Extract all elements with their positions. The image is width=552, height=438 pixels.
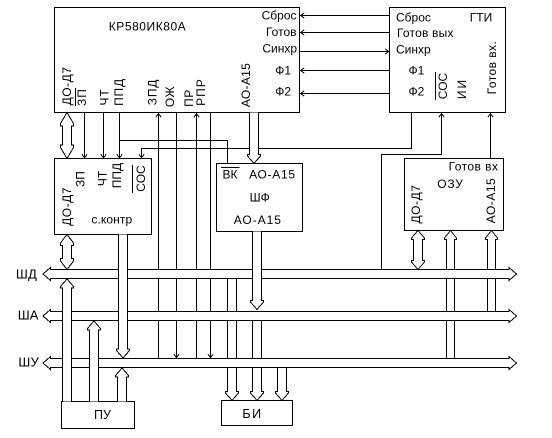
svg-text:БИ: БИ: [242, 407, 262, 421]
svg-text:ЗП: ЗП: [75, 88, 89, 106]
svg-text:ЧТ: ЧТ: [96, 170, 110, 186]
label ShD: [16, 267, 37, 282]
wire Sbros GTI to CPU: [300, 13, 390, 18]
svg-text:Ф2: Ф2: [275, 85, 291, 99]
wire ZPD ShU bus to CPU: [156, 113, 161, 359]
control bus ShU: [43, 357, 517, 370]
pin label F1 (GTI): [409, 64, 425, 78]
wire D0-D7 OZU to ShD bus (double arrow): [412, 231, 425, 270]
wire PU to ShD bus (up arrow): [61, 279, 74, 402]
svg-text:ША: ША: [18, 308, 39, 323]
system controller block U3: [55, 159, 152, 235]
pin label Gotov vh (OZU): [449, 160, 499, 174]
wire F2 GTI to CPU: [300, 91, 390, 96]
label PU name: [94, 408, 111, 422]
wire Gotov GTI to CPU: [300, 30, 390, 35]
pin label II (GTI): [455, 78, 469, 99]
svg-text:ЗП: ЗП: [73, 171, 87, 187]
label s.kontr: [91, 213, 132, 227]
svg-text:ЗПД: ЗПД: [146, 79, 160, 105]
label OZU name: [437, 177, 463, 191]
pin label PPD (CPU): [112, 78, 126, 106]
pin label F2 (GTI): [409, 85, 425, 99]
wire ShU bus to OZU (up arrow): [445, 231, 457, 359]
svg-text:РПР: РПР: [194, 78, 208, 106]
wire F1 GTI to CPU: [300, 68, 390, 73]
svg-text:Ф2: Ф2: [409, 85, 425, 99]
wire ChT CPU to controller: [101, 113, 106, 159]
wire A0-A15 ShF to ShA bus (down arrow): [251, 232, 264, 310]
clock generator block U2 GTI: [390, 8, 506, 113]
svg-text:ДО-Д7: ДО-Д7: [409, 184, 423, 223]
svg-text:с.контр: с.контр: [91, 213, 132, 227]
pin label SOS with overline (ctrl): [133, 165, 148, 193]
pin label ChT (ctrl): [96, 170, 110, 186]
pin label PPD (ctrl): [110, 163, 124, 188]
wire controller to ShU bus (down arrow): [117, 235, 130, 359]
svg-text:Готов вх.: Готов вх.: [485, 41, 499, 95]
pin label A0-A15 top (ShF): [249, 168, 296, 182]
svg-text:КР580ИК80А: КР580ИК80А: [109, 20, 186, 34]
pin label Gotov vyh (GTI): [397, 26, 454, 40]
label BI name: [242, 407, 262, 421]
svg-text:АО-А15: АО-А15: [249, 168, 296, 182]
wire SOS from GTI to controller: [139, 113, 412, 159]
label ShA: [18, 308, 39, 323]
wire Sinhr CPU to GTI: [300, 49, 390, 54]
svg-text:ИИ: ИИ: [455, 78, 469, 99]
svg-text:ВК: ВК: [223, 168, 238, 182]
wire RPR CPU to ShU bus: [208, 113, 213, 359]
pin label A0-A15 (CPU): [239, 63, 253, 107]
svg-text:ДО-Д7: ДО-Д7: [60, 67, 74, 106]
bus driver block U4 ShF: [217, 164, 303, 232]
wire ShA bus to OZU (up arrow): [486, 231, 498, 312]
pin label RPR (CPU): [194, 78, 208, 106]
svg-text:ШФ: ШФ: [250, 191, 270, 205]
pin label D0-D7 (OZU): [409, 184, 423, 223]
wire D0-D7 controller to ShD bus (double arrow): [61, 235, 74, 270]
pin label A0-A15 (OZU): [484, 178, 498, 223]
wire D0-D7 CPU to controller (double arrow): [61, 113, 74, 159]
pin label ZP (ctrl): [73, 171, 87, 187]
svg-text:ГТИ: ГТИ: [470, 11, 492, 25]
pin label ZP with overline (CPU): [75, 88, 89, 106]
wire A0-A15 CPU to ShF (down arrow): [248, 113, 261, 164]
svg-text:Готов: Готов: [266, 25, 297, 39]
svg-text:Готов вх: Готов вх: [449, 160, 499, 174]
label CPU name KP580IK80A: [109, 20, 186, 34]
label ShU: [18, 355, 39, 370]
pin label VK with overline (ShF): [221, 168, 240, 182]
svg-text:ШУ: ШУ: [18, 355, 39, 370]
wire OZh CPU to ShU bus: [174, 113, 179, 359]
wire PPD branch to VK pin of ShF: [120, 141, 228, 164]
wire ShD bus to BI (down arrow): [226, 279, 239, 401]
pin label ChT (CPU): [97, 89, 111, 106]
data bus ShD: [43, 268, 517, 281]
wire ShU bus to BI (down arrow): [276, 368, 289, 401]
svg-text:ПУ: ПУ: [94, 408, 111, 422]
control panel block U6 PU: [62, 402, 135, 429]
wire ZP CPU to controller: [82, 113, 87, 159]
wire PU to ShU bus (up arrow): [116, 368, 129, 402]
pin label Sbros (GTI): [396, 11, 431, 25]
svg-text:Готов вых: Готов вых: [397, 26, 454, 40]
svg-text:ДО-Д7: ДО-Д7: [60, 187, 74, 226]
pin label OZh (CPU): [163, 86, 177, 107]
pin label Sbros (CPU right): [262, 9, 297, 23]
wire Gotov vh OZU to GTI: [488, 113, 493, 159]
wire ShA bus to BI (down arrow): [251, 321, 264, 401]
svg-text:ППД: ППД: [112, 78, 126, 106]
pin label D0-D7 (ctrl): [60, 187, 74, 226]
svg-text:АО-А15: АО-А15: [484, 178, 498, 223]
pin label Gotov vh. (GTI): [485, 41, 499, 95]
indicator block U7 BI: [222, 401, 293, 426]
svg-text:ППД: ППД: [110, 163, 124, 188]
wire PPD CPU to controller: [117, 113, 122, 159]
svg-text:Синхр: Синхр: [262, 42, 297, 56]
svg-text:ЧТ: ЧТ: [97, 89, 111, 106]
pin label D0-D7 (CPU): [60, 67, 74, 106]
wire PU to ShA bus (up arrow): [88, 321, 101, 402]
pin label Gotov (CPU right): [266, 25, 297, 39]
pin label Sinhr (CPU right): [262, 42, 297, 56]
svg-text:СОС: СОС: [436, 72, 450, 99]
pin label SOS with overline (GTI): [436, 72, 451, 100]
svg-text:Сброс: Сброс: [262, 9, 297, 23]
label ShF name: [250, 191, 270, 205]
pin label PR (CPU): [182, 89, 196, 107]
svg-text:АО-А15: АО-А15: [234, 213, 282, 227]
memory block U5 OZU: [405, 159, 504, 231]
label GTI name: [470, 11, 492, 25]
svg-text:СОС: СОС: [134, 165, 148, 192]
wire II from ShD bus to GTI: [382, 113, 445, 270]
pin label Sinhr (GTI): [396, 43, 431, 57]
svg-text:Синхр: Синхр: [396, 43, 431, 57]
svg-text:Сброс: Сброс: [396, 11, 431, 25]
CPU block U1 KP580IK80A: [55, 8, 300, 113]
pin label F1 (CPU right): [275, 64, 291, 78]
pin label A0-A15 bottom (ShF): [234, 213, 282, 227]
svg-text:Ф1: Ф1: [409, 64, 425, 78]
pin label ZPD (CPU): [146, 79, 160, 105]
svg-text:ОЗУ: ОЗУ: [437, 177, 463, 191]
address bus ShA: [43, 310, 517, 323]
pin label F2 (CPU right): [275, 85, 291, 99]
svg-text:Ф1: Ф1: [275, 64, 291, 78]
wire PR ShU bus to CPU: [194, 113, 199, 359]
svg-text:АО-А15: АО-А15: [239, 63, 253, 107]
svg-text:ШД: ШД: [16, 267, 37, 282]
svg-text:ОЖ: ОЖ: [163, 86, 177, 107]
